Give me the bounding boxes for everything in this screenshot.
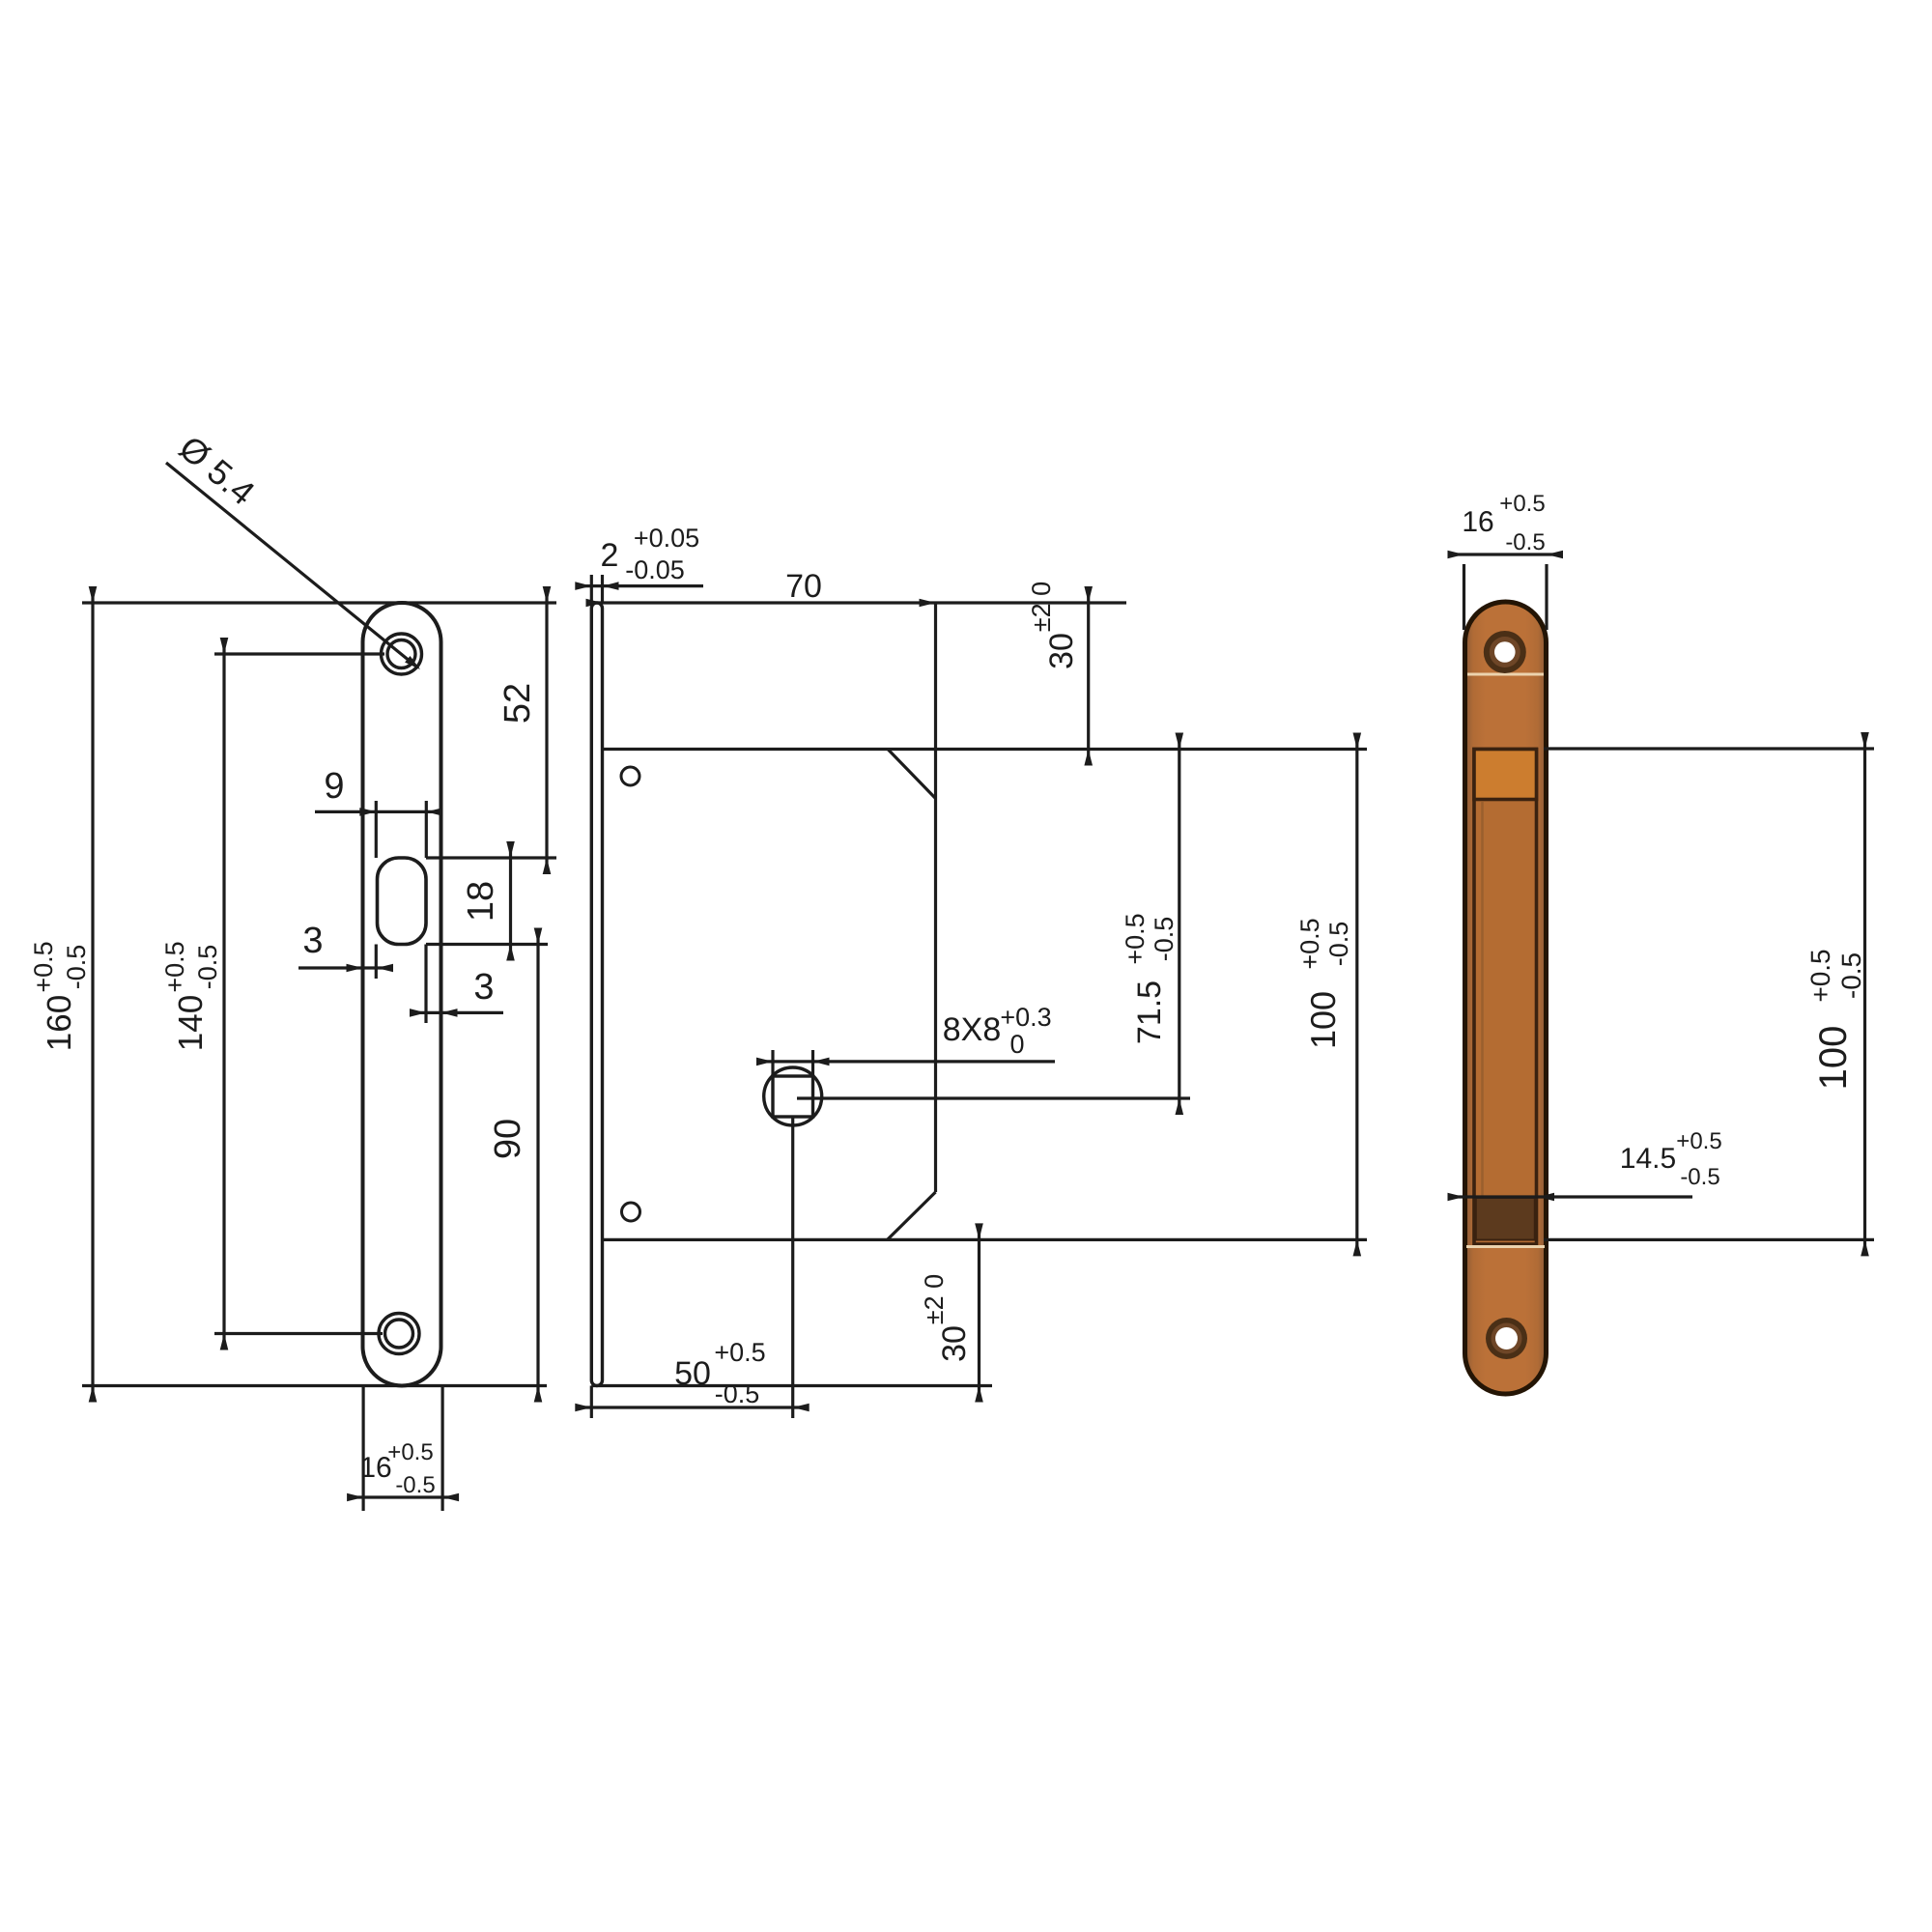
- svg-text:+0.5: +0.5: [29, 941, 58, 992]
- svg-text:-0.5: -0.5: [715, 1379, 760, 1408]
- arrow 3R left: [410, 1009, 426, 1017]
- dimension 52 line: [545, 588, 548, 872]
- faceplate outline (front view): [363, 603, 441, 1386]
- dimension 100 right line: [1863, 733, 1866, 1254]
- dimension 16 left view line: [348, 1495, 455, 1498]
- ext line strip right top: [601, 575, 604, 603]
- svg-text:9: 9: [324, 766, 344, 807]
- texts right view: [1462, 491, 1866, 1190]
- ext line slot right lower: [424, 945, 427, 1024]
- label 100 middle: [1295, 918, 1353, 1049]
- svg-text:+0.5: +0.5: [160, 941, 189, 992]
- svg-text:-0.5: -0.5: [1150, 917, 1179, 962]
- ext line strip left bottom: [590, 1386, 593, 1419]
- svg-text:±2 0: ±2 0: [1027, 582, 1056, 632]
- svg-text:-0.5: -0.5: [1680, 1164, 1719, 1190]
- spindle center vertical ext: [791, 1117, 794, 1418]
- svg-text:-0.5: -0.5: [62, 945, 91, 990]
- arrow 16R right: [1547, 551, 1563, 559]
- bottom screw hole inner: [385, 1320, 413, 1348]
- dimension 3 right line: [417, 1011, 503, 1014]
- arrow 16L left: [347, 1493, 363, 1502]
- arrow 9 left: [359, 808, 376, 816]
- dimension 70 line / top ext: [586, 601, 1126, 604]
- dark magnet block: [1476, 1198, 1535, 1240]
- spindle center horizontal ext: [797, 1096, 1190, 1099]
- arrow 71.5 top: [1176, 733, 1184, 750]
- ext line strip bottom y1434.5: [591, 1384, 992, 1387]
- ext line square right: [811, 1050, 814, 1076]
- ext line slot left x389.3: [375, 801, 378, 858]
- cap separation line bottom: [1466, 1245, 1545, 1248]
- arrow 100R top: [1861, 732, 1869, 749]
- arrow 16L right: [442, 1493, 459, 1502]
- svg-text:+0.5: +0.5: [1295, 918, 1324, 969]
- arrow dia5.4 leader: [405, 656, 423, 672]
- arrow 8x8 right: [813, 1058, 830, 1066]
- arrow 100M top: [1353, 733, 1362, 750]
- arrow 100M bottom: [1353, 1239, 1362, 1256]
- label 100 right: [1805, 949, 1866, 1090]
- arrow 14.5 right: [1538, 1193, 1554, 1202]
- label 160: [29, 941, 91, 1051]
- arrow 18 bottom: [506, 945, 515, 961]
- arrow 2 right: [603, 582, 619, 590]
- arrow 160 bottom: [89, 1386, 98, 1403]
- top screw hole coloured: [1484, 631, 1526, 673]
- ext line plate right lower: [441, 1386, 444, 1512]
- arrow 140 bottom: [220, 1334, 229, 1350]
- extension line top y624: [82, 601, 556, 604]
- arrow 52 top: [543, 586, 552, 603]
- svg-text:160: 160: [41, 995, 78, 1051]
- svg-text:-0.5: -0.5: [1324, 922, 1353, 967]
- label 30 bottom: [920, 1274, 973, 1362]
- svg-text:-0.5: -0.5: [193, 945, 222, 990]
- ext line square left: [771, 1050, 774, 1076]
- arrow 18 top: [506, 841, 515, 858]
- dimension 2 line: [577, 584, 703, 587]
- dimension 140 line: [222, 640, 225, 1348]
- faceplate side view strip: [591, 603, 602, 1386]
- arrow 70 left: [586, 599, 603, 608]
- dimension 30 top line: [1087, 589, 1090, 764]
- svg-text:-0.05: -0.05: [625, 555, 685, 584]
- svg-text:-0.5: -0.5: [395, 1472, 435, 1498]
- bottom screw hole coloured: [1486, 1318, 1527, 1359]
- arrow 100R bottom: [1861, 1239, 1869, 1256]
- ext line slot bottom y977.5: [426, 943, 548, 946]
- svg-text:71.5: 71.5: [1131, 980, 1168, 1044]
- dimension 160 line: [91, 589, 94, 1400]
- arrow 3L right: [377, 964, 393, 973]
- arrow 2 left: [575, 582, 591, 590]
- svg-text:±2 0: ±2 0: [920, 1274, 949, 1324]
- svg-text:52: 52: [497, 683, 538, 724]
- svg-text:90: 90: [488, 1119, 528, 1159]
- arrow 30B top: [975, 1223, 983, 1239]
- arrow 50 right: [793, 1404, 810, 1412]
- latch slot opening: [378, 858, 427, 945]
- svg-text:3: 3: [302, 921, 323, 961]
- ext line right plate right: [1545, 564, 1548, 630]
- arrow 30T top: [1084, 586, 1093, 603]
- svg-text:+0.05: +0.05: [634, 524, 699, 553]
- svg-text:14.5: 14.5: [1620, 1143, 1676, 1175]
- texts left view: [29, 428, 538, 1498]
- svg-text:-0.5: -0.5: [1505, 529, 1545, 555]
- top screw hole inner: [387, 640, 415, 668]
- dimension 18 line: [509, 843, 512, 959]
- arrow 3L left: [347, 964, 363, 973]
- arrow 71.5 bottom: [1176, 1098, 1184, 1115]
- ext line 100R top: [1544, 747, 1874, 750]
- label 30 top: [1027, 582, 1080, 669]
- svg-text:0: 0: [1009, 1030, 1024, 1059]
- svg-text:+0.5: +0.5: [1499, 491, 1545, 517]
- arrow 90 top: [534, 928, 543, 945]
- svg-text:+0.3: +0.3: [1000, 1003, 1051, 1032]
- arrows left view: [89, 586, 552, 1501]
- arrow 70 right: [920, 599, 936, 608]
- dimension 100 middle line: [1355, 736, 1358, 1253]
- ext line slot right x441.3: [425, 801, 428, 858]
- arrows middle view: [575, 582, 1361, 1411]
- dimension 16 right line: [1449, 553, 1562, 555]
- svg-text:+0.5: +0.5: [714, 1338, 765, 1367]
- arrow 140 top: [220, 638, 229, 654]
- dimension 90 line: [536, 930, 539, 1400]
- arrow 3R right: [441, 1009, 458, 1017]
- leader line dia 5.4: [166, 463, 418, 668]
- arrow 16R left: [1448, 551, 1464, 559]
- svg-text:-0.5: -0.5: [1836, 952, 1866, 999]
- svg-text:30: 30: [936, 1325, 973, 1362]
- svg-text:+0.5: +0.5: [387, 1439, 433, 1465]
- arrow 50 left: [575, 1404, 591, 1412]
- svg-text:140: 140: [172, 995, 210, 1051]
- arrow 90 bottom: [534, 1386, 543, 1403]
- svg-text:+0.5: +0.5: [1805, 949, 1835, 1002]
- spindle hub circle: [764, 1067, 822, 1125]
- svg-text:100: 100: [1303, 991, 1343, 1049]
- body screw hole top: [621, 767, 639, 785]
- arrow 9 right: [426, 808, 442, 816]
- latch head block: [1474, 750, 1537, 800]
- ext line hole top center: [214, 652, 384, 655]
- extension line bottom y1434.5: [82, 1384, 547, 1387]
- svg-text:+0.5: +0.5: [1676, 1128, 1721, 1154]
- coloured faceplate body: [1465, 602, 1547, 1394]
- spindle square 8x8: [773, 1076, 813, 1117]
- ext line plate left lower: [362, 1386, 365, 1512]
- lock body right edge + 70 extension: [934, 603, 937, 1192]
- arrows right view: [1448, 551, 1869, 1257]
- cap separation line top: [1467, 673, 1544, 676]
- svg-text:18: 18: [461, 881, 501, 922]
- svg-text:3: 3: [473, 967, 494, 1008]
- body screw hole bottom: [622, 1203, 640, 1221]
- ext line slot left lower: [375, 945, 378, 980]
- dimension 3 left line: [298, 966, 390, 969]
- ext line hole bottom center: [214, 1332, 383, 1335]
- top screw hole outer: [382, 634, 422, 674]
- ext line right plate left: [1463, 564, 1465, 630]
- arrow 30T bottom: [1084, 750, 1093, 766]
- arrow 160 top: [89, 586, 98, 603]
- arrow 14.5 left: [1448, 1193, 1464, 1202]
- channel inner shade line: [1481, 802, 1484, 1196]
- dimension 9 line: [315, 810, 440, 813]
- svg-text:8X8: 8X8: [943, 1011, 1002, 1048]
- lock body bottom chamfer: [888, 1192, 936, 1239]
- svg-text:100: 100: [1812, 1026, 1855, 1091]
- svg-text:+0.5: +0.5: [1121, 913, 1150, 964]
- lock body top edge + extension: [603, 748, 1367, 751]
- dimension 14.5 line: [1449, 1195, 1692, 1198]
- ext line strip left top: [590, 575, 593, 603]
- arrow 52 bottom: [543, 858, 552, 874]
- dimension 50 line: [577, 1406, 805, 1408]
- arrow 30B bottom: [975, 1386, 983, 1403]
- ext line 100R bottom: [1544, 1238, 1874, 1241]
- svg-text:16: 16: [1462, 506, 1493, 538]
- lock body top chamfer: [888, 750, 936, 799]
- ext line slot top y888: [426, 856, 556, 859]
- dimension 30 bottom line: [978, 1226, 980, 1400]
- svg-text:50: 50: [674, 1355, 711, 1392]
- lock body bottom edge + extension: [603, 1238, 1367, 1241]
- label 140: [160, 941, 222, 1051]
- dimension 8x8 line: [759, 1060, 1055, 1063]
- label 71.5: [1121, 913, 1179, 1044]
- latch channel: [1474, 750, 1537, 1245]
- svg-text:2: 2: [601, 537, 619, 574]
- dimension 71.5 line: [1178, 736, 1180, 1112]
- svg-text:70: 70: [785, 568, 822, 605]
- texts middle view: [601, 524, 1353, 1408]
- arrow 8x8 left: [756, 1058, 773, 1066]
- svg-text:30: 30: [1043, 633, 1080, 669]
- bottom screw hole outer: [379, 1314, 419, 1354]
